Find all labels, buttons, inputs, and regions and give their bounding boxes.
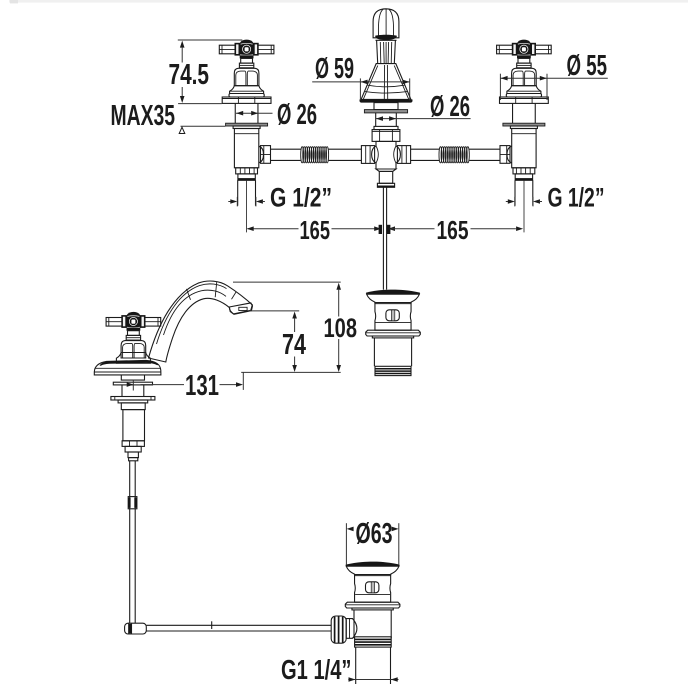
- svg-text:74.5: 74.5: [169, 59, 210, 91]
- pipe right hose to right valve: [469, 148, 500, 150]
- shank between washers: [121, 385, 123, 397]
- bottom pop-up waste W2: [345, 562, 400, 639]
- svg-text:G 1/2”: G 1/2”: [270, 183, 332, 213]
- threaded end: [375, 366, 411, 375]
- oval base: [94, 360, 161, 375]
- connecting pipes and hoses: [271, 147, 501, 163]
- MAX35 upper reference line: [178, 103, 222, 105]
- tee left nut: [361, 146, 374, 164]
- center spout assembly: [360, 9, 413, 188]
- pipe tee to right hose: [411, 148, 439, 150]
- svg-text:Ø 26: Ø 26: [277, 99, 317, 131]
- upper cylinder: [374, 103, 398, 110]
- MAX35 lower reference line: [181, 125, 226, 127]
- dim 74.5 upper arrow: [180, 41, 185, 48]
- middle pop-up waste W1: [366, 290, 421, 376]
- faucet spout outer curve: [149, 281, 253, 362]
- tail cylinder: [379, 171, 392, 183]
- svg-text:G1 1/4”: G1 1/4”: [281, 654, 352, 685]
- svg-text:Ø 55: Ø 55: [567, 50, 608, 82]
- dim G1/2 right ticks and arrows: [514, 197, 516, 207]
- svg-text:165: 165: [300, 217, 331, 245]
- dim 165 line left span: [248, 228, 299, 230]
- bottom waste tailpipe: [355, 647, 357, 684]
- gray deck flange: [364, 110, 407, 113]
- svg-text:131: 131: [185, 370, 219, 402]
- faucet bell: [121, 341, 146, 358]
- pipe left valve to left hose: [271, 148, 301, 150]
- spout section ticks: [187, 282, 217, 300]
- spout mouth dark band: [375, 35, 397, 40]
- mounting nut: [372, 130, 400, 142]
- tee body: [372, 141, 401, 169]
- tail collar: [377, 183, 394, 187]
- svg-text:Ø63: Ø63: [356, 518, 393, 550]
- cone base dark band: [360, 99, 413, 102]
- neck: [377, 40, 396, 63]
- rod coupler at dimension line: [379, 225, 382, 234]
- top gray bar: [9, 0, 688, 3]
- rod coupler: [128, 497, 137, 509]
- rod ball-joint nut: [331, 616, 346, 643]
- rod joint tick: [211, 621, 213, 629]
- tail collar: [125, 446, 141, 452]
- dim Ø26 left arrows: [236, 112, 273, 114]
- elbow fitting: [125, 623, 147, 634]
- dim 108 top reference line: [233, 281, 341, 283]
- flared cone: [361, 64, 411, 100]
- spout inner contour lines: [157, 284, 227, 344]
- dim Ø59 line and arrows: [312, 81, 410, 83]
- horizontal rod: [146, 624, 331, 626]
- right valve V2 (mirrored): [497, 40, 552, 233]
- dim 74.5 top reference line: [178, 39, 243, 41]
- dim G1 1/4 arrows: [348, 679, 398, 681]
- pipe left hose to tee: [329, 148, 362, 150]
- dim Ø55 line, arrows, ticks: [500, 77, 607, 79]
- faucet skirt: [116, 353, 150, 364]
- spout pop-up rod: [382, 187, 384, 289]
- dim Ø63 ticks and arrows: [345, 523, 347, 565]
- top washer: [113, 382, 152, 385]
- base shank: [121, 375, 144, 380]
- faucet lift rod: [129, 461, 131, 623]
- dim 131: [132, 380, 134, 391]
- lock washer: [111, 397, 155, 401]
- collar: [374, 126, 398, 129]
- svg-text:108: 108: [324, 313, 358, 343]
- svg-text:G 1/2”: G 1/2”: [548, 183, 605, 213]
- dim 74 top reference line: [248, 310, 299, 312]
- tee right nut: [397, 146, 410, 164]
- corrugated hose right: [439, 147, 469, 163]
- svg-text:MAX35: MAX35: [111, 100, 176, 132]
- dim G1/2 left ticks and arrows: [236, 197, 238, 207]
- tail taper: [376, 169, 396, 171]
- dim 165 line right span: [388, 226, 395, 231]
- dim Ø26 center arrows: [376, 118, 471, 120]
- corrugated hose left: [301, 147, 329, 163]
- deck reference line: [241, 371, 341, 373]
- middle faucet (single-hole basin tap, side view): [94, 281, 252, 461]
- ball-joint collar: [346, 619, 357, 639]
- body hex: [122, 441, 144, 447]
- dim 74.5 lower arrow: [181, 87, 183, 97]
- aerator outlet: [229, 303, 252, 314]
- threaded tube: [375, 113, 377, 127]
- left valve V1: [219, 40, 274, 233]
- svg-text:Ø 59: Ø 59: [315, 53, 354, 85]
- pop-up linkage rods: [125, 187, 391, 634]
- svg-text:165: 165: [437, 217, 469, 245]
- valve body under deck: [121, 403, 145, 410]
- handle: [106, 312, 161, 340]
- bottom waste threaded section: [355, 637, 392, 647]
- MAX35 hollow arrow: [179, 127, 185, 133]
- svg-text:74: 74: [282, 329, 306, 361]
- spout dome head: [373, 9, 399, 38]
